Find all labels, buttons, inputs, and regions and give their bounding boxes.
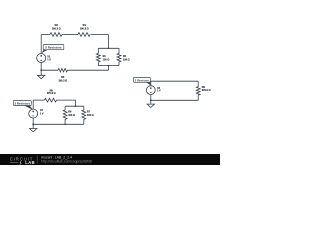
svg-text:5 Resistors: 5 Resistors: [45, 46, 62, 50]
annotation flag 5 Resistors: [42, 45, 64, 54]
resistor R2: [117, 48, 121, 65]
svg-text:100 Ω: 100 Ω: [68, 114, 75, 117]
wire C top segment: [151, 80, 198, 82]
wire A parallel top node: [98, 47, 119, 49]
wire B parallel top node: [65, 105, 84, 107]
svg-text:100 Ω: 100 Ω: [123, 58, 130, 61]
svg-text:190.3 Ω: 190.3 Ω: [58, 79, 67, 82]
wire A top-mid segment: [62, 34, 78, 36]
wire A top-left segment: [41, 34, 50, 36]
resistor R9: [196, 81, 200, 100]
wire A source bottom stem: [40, 63, 42, 71]
junction node C ground: [150, 99, 152, 101]
wire A right riser bottom: [108, 66, 110, 71]
resistor R7: [82, 106, 86, 124]
resistor R8: [45, 98, 57, 102]
wire A parallel bottom node: [98, 65, 119, 67]
svg-text:1 V: 1 V: [47, 58, 51, 61]
footer bar: [0, 154, 220, 165]
resistor R3: [50, 33, 62, 37]
svg-text:100 Ω: 100 Ω: [103, 58, 110, 61]
ground C: [147, 100, 154, 107]
junction node B top: [75, 105, 77, 107]
svg-text:570.9 Ω: 570.9 Ω: [47, 92, 56, 95]
annotation flag 1 Resistor: [133, 78, 151, 86]
wire C source bottom stem: [150, 95, 152, 101]
svg-text:3 Resistors: 3 Resistors: [15, 101, 31, 105]
wire B bottom node: [33, 123, 84, 125]
junction node A top: [108, 48, 110, 50]
wire B top-left segment: [33, 99, 44, 101]
wire A right riser top: [108, 35, 110, 49]
svg-text:190.3 Ω: 190.3 Ω: [80, 28, 89, 31]
wire C left rail: [150, 81, 152, 86]
svg-text:1 V: 1 V: [157, 90, 161, 93]
wire A top-right segment: [91, 34, 109, 36]
voltage source V3: [146, 86, 155, 95]
wire A bottom-left segment: [41, 69, 58, 71]
svg-text:1 Resistor: 1 Resistor: [135, 78, 150, 82]
ground B: [30, 124, 37, 132]
wire A left rail: [40, 35, 42, 54]
junction node A bottom: [108, 65, 110, 67]
junction node A ground: [40, 69, 42, 71]
annotation flag 3 Resistors: [13, 101, 33, 110]
svg-text:190.3 Ω: 190.3 Ω: [52, 28, 61, 31]
svg-text:LAB: LAB: [25, 160, 35, 165]
wire C bottom segment: [151, 99, 198, 101]
svg-text:1 V: 1 V: [40, 112, 44, 115]
svg-text:100 Ω: 100 Ω: [87, 114, 94, 117]
junction node B ground: [32, 123, 34, 125]
voltage source V1: [37, 54, 46, 63]
svg-text:http://circuitlab.com/csqprsp6: http://circuitlab.com/csqprsp68f38: [41, 160, 92, 164]
svg-text:620.9 Ω: 620.9 Ω: [202, 89, 211, 92]
logo LAB with bolt: [10, 162, 18, 164]
wire A bottom-right segment: [68, 69, 109, 71]
wire B left rail: [32, 100, 34, 109]
footer divider: [36, 156, 38, 164]
wire B top-right segment: [57, 100, 76, 106]
resistor R6: [63, 106, 67, 124]
resistor R1: [96, 48, 100, 65]
wire B source bottom stem: [32, 118, 34, 124]
ground A: [38, 70, 45, 79]
junction node B R6 bottom: [64, 124, 66, 126]
resistor R5: [58, 68, 67, 72]
voltage source V2: [29, 109, 38, 118]
resistor R4: [78, 33, 90, 37]
